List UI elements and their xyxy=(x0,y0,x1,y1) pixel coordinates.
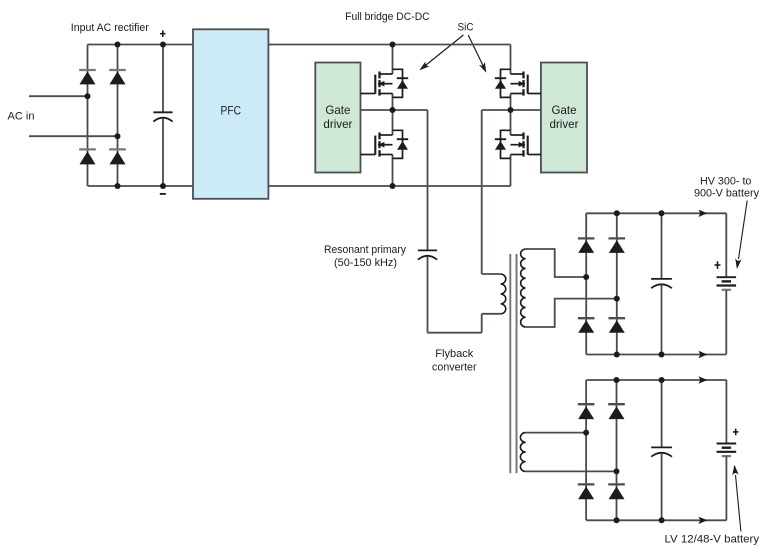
diode D1 (input bridge upper-left) xyxy=(79,70,96,84)
node junction right half-bridge midpoint xyxy=(508,107,514,113)
wire LV capacitor lower lead xyxy=(661,453,663,520)
callout arrow SiC to left MOSFET xyxy=(419,35,463,70)
inductor L2 transformer HV secondary winding xyxy=(521,249,526,327)
callout arrow to HV battery xyxy=(735,201,747,270)
wire primary return vertical xyxy=(481,314,483,333)
wire input bridge right leg xyxy=(117,45,119,187)
wire DC bus top rail xyxy=(268,44,510,46)
node junction LV bottom rail / capacitor xyxy=(659,517,665,523)
node junction LV top rail / capacitor xyxy=(659,377,665,383)
capacitor C3 (HV output) xyxy=(651,279,672,288)
wire LV secondary bottom lead xyxy=(526,470,617,472)
callout arrow SiC to right MOSFET xyxy=(468,35,486,73)
label Full bridge DC-DC xyxy=(345,11,430,23)
node junction left half-bridge midpoint xyxy=(390,107,396,113)
node junction HV top rail / capacitor xyxy=(659,210,665,216)
wire HV bottom rail xyxy=(586,354,726,356)
wire LV bottom rail xyxy=(586,519,726,521)
diode D9 (LV bridge upper-left) xyxy=(578,404,595,419)
wire left midpoint to gate driver xyxy=(361,109,393,111)
diode D6 (HV bridge upper-right) xyxy=(609,238,626,253)
wire LV battery lower lead xyxy=(725,456,727,520)
label + (C1 positive) xyxy=(160,30,165,37)
wire primary return bottom xyxy=(428,332,482,334)
wire input bridge top rail xyxy=(88,44,194,46)
svg-text:Input AC rectifier: Input AC rectifier xyxy=(71,22,149,34)
label LV 12/48-V battery xyxy=(665,534,760,546)
wire right half-bridge branch xyxy=(510,45,512,187)
label Resonant primary xyxy=(324,244,406,256)
node junction bridge bottom / right leg xyxy=(115,183,121,189)
wire left midpoint to resonant leg xyxy=(393,109,428,111)
label Gate driver (left) xyxy=(323,103,352,131)
wire left half-bridge branch xyxy=(392,45,394,187)
block Gate driver (right) xyxy=(541,63,587,173)
transformer core xyxy=(510,254,516,473)
wire LV bridge left leg xyxy=(585,380,587,520)
diode D12 (LV bridge lower-right) xyxy=(608,484,625,499)
arrow HV bottom rail current xyxy=(699,351,708,358)
capacitor C4 (LV output) xyxy=(651,447,672,456)
node junction bottom rail / left branch xyxy=(390,183,396,189)
wire capacitor C1 upper lead xyxy=(162,45,164,113)
node junction top rail / left branch xyxy=(390,42,396,48)
wire AC input upper line xyxy=(29,95,88,97)
svg-text:driver: driver xyxy=(550,117,579,131)
wire primary leg from right midpoint xyxy=(481,110,483,274)
inductor L1 transformer primary winding xyxy=(501,274,506,314)
wire LV secondary top lead xyxy=(526,432,587,434)
wire right midpoint to primary leg xyxy=(482,109,511,111)
node junction LV right leg midpoint xyxy=(614,468,620,474)
wire HV secondary bottom lead xyxy=(526,299,617,327)
diode D8 (HV bridge lower-right) xyxy=(609,318,626,333)
label + (LV battery) xyxy=(733,429,738,436)
wire LV battery upper lead xyxy=(725,380,727,444)
svg-text:900-V battery: 900-V battery xyxy=(694,188,759,200)
svg-text:Full bridge DC-DC: Full bridge DC-DC xyxy=(345,11,430,23)
callout arrow to LV battery xyxy=(732,465,741,532)
battery B2 (LV) xyxy=(717,444,737,457)
node junction HV bottom rail / right leg xyxy=(614,352,620,358)
wire primary top lead xyxy=(482,273,501,275)
diode D3 (input bridge lower-left) xyxy=(79,149,96,164)
wire HV bridge left leg xyxy=(585,213,587,354)
label PFC xyxy=(221,104,242,118)
node junction lower AC line / right leg xyxy=(115,133,121,139)
node junction HV right leg midpoint xyxy=(614,296,620,302)
svg-text:Flyback: Flyback xyxy=(435,348,473,360)
diode D4 (input bridge lower-right) xyxy=(109,149,126,164)
svg-text:Gate: Gate xyxy=(552,103,577,117)
label Flyback converter xyxy=(432,348,477,374)
node junction C1 top rail xyxy=(160,42,166,48)
label (50-150 kHz) xyxy=(334,257,397,269)
wire HV capacitor lower lead xyxy=(661,285,663,355)
wire AC input lower line xyxy=(29,135,118,137)
wire LV top rail xyxy=(586,379,726,381)
diode D11 (LV bridge lower-left) xyxy=(578,484,595,499)
wire right midpoint to gate driver xyxy=(511,109,541,111)
wire primary bottom lead xyxy=(482,313,501,315)
wire input bridge bottom rail xyxy=(88,185,194,187)
block PFC xyxy=(193,29,268,199)
wire LV capacitor upper lead xyxy=(661,380,663,447)
wire DC bus bottom rail xyxy=(268,185,510,187)
node junction C1 bottom rail xyxy=(160,183,166,189)
svg-text:Resonant primary: Resonant primary xyxy=(324,244,406,256)
wire input bridge left leg xyxy=(87,45,89,187)
svg-text:converter: converter xyxy=(432,361,477,373)
wire HV battery upper lead xyxy=(725,213,727,277)
capacitor C1 (DC link) xyxy=(153,112,172,121)
inductor L3 transformer LV secondary winding xyxy=(520,433,525,472)
node junction upper AC line / left leg xyxy=(85,93,91,99)
wire resonant leg upper xyxy=(427,110,429,250)
wire HV secondary top lead xyxy=(526,249,587,277)
arrow LV bottom rail current xyxy=(699,517,708,524)
wire HV top rail xyxy=(586,212,726,214)
diode D10 (LV bridge upper-right) xyxy=(608,404,625,419)
transistor Q4 (lower-right SiC MOSFET) xyxy=(495,130,541,158)
wire HV capacitor upper lead xyxy=(661,213,663,279)
transistor Q1 (upper-left SiC MOSFET) xyxy=(361,69,409,97)
node junction bridge top / right leg xyxy=(115,42,121,48)
node junction LV left leg midpoint xyxy=(583,430,589,436)
wire HV bridge right leg xyxy=(616,213,618,354)
diode D7 (HV bridge lower-left) xyxy=(578,318,595,333)
label + (HV battery) xyxy=(715,261,721,269)
svg-text:PFC: PFC xyxy=(221,104,242,118)
svg-text:(50-150 kHz): (50-150 kHz) xyxy=(334,257,397,269)
block Gate driver (left) xyxy=(315,63,360,173)
label AC in xyxy=(8,111,35,123)
svg-text:HV 300- to: HV 300- to xyxy=(700,176,752,188)
battery B1 (HV) xyxy=(717,277,737,290)
arrow HV top rail current xyxy=(699,210,708,217)
svg-text:LV 12/48-V battery: LV 12/48-V battery xyxy=(665,534,760,546)
transistor Q3 (upper-right SiC MOSFET) xyxy=(495,69,541,97)
diode D5 (HV bridge upper-left) xyxy=(578,238,595,253)
diode D2 (input bridge upper-right) xyxy=(109,70,126,84)
svg-text:driver: driver xyxy=(323,117,352,131)
arrow LV top rail current xyxy=(699,376,708,383)
label SiC xyxy=(458,21,474,33)
wire capacitor C1 lower lead xyxy=(162,118,164,186)
transistor Q2 (lower-left SiC MOSFET) xyxy=(361,130,409,158)
svg-text:SiC: SiC xyxy=(458,21,474,33)
node junction LV bottom rail / right leg xyxy=(614,517,620,523)
label − (C1 negative) xyxy=(160,193,166,195)
svg-text:Gate: Gate xyxy=(325,103,350,117)
node junction LV top rail / right leg xyxy=(614,377,620,383)
node junction HV top rail / right leg xyxy=(614,210,620,216)
wire HV battery lower lead xyxy=(725,290,727,355)
wire LV bridge right leg xyxy=(616,380,618,520)
label Gate driver (right) xyxy=(550,103,579,131)
node junction HV left leg midpoint xyxy=(583,274,589,280)
label Input AC rectifier xyxy=(71,22,149,34)
label HV 300- to 900-V battery xyxy=(694,176,759,200)
svg-text:AC in: AC in xyxy=(8,111,35,123)
capacitor C2 (resonant) xyxy=(418,250,437,259)
wire resonant leg lower xyxy=(427,256,429,332)
node junction HV bottom rail / capacitor xyxy=(659,352,665,358)
